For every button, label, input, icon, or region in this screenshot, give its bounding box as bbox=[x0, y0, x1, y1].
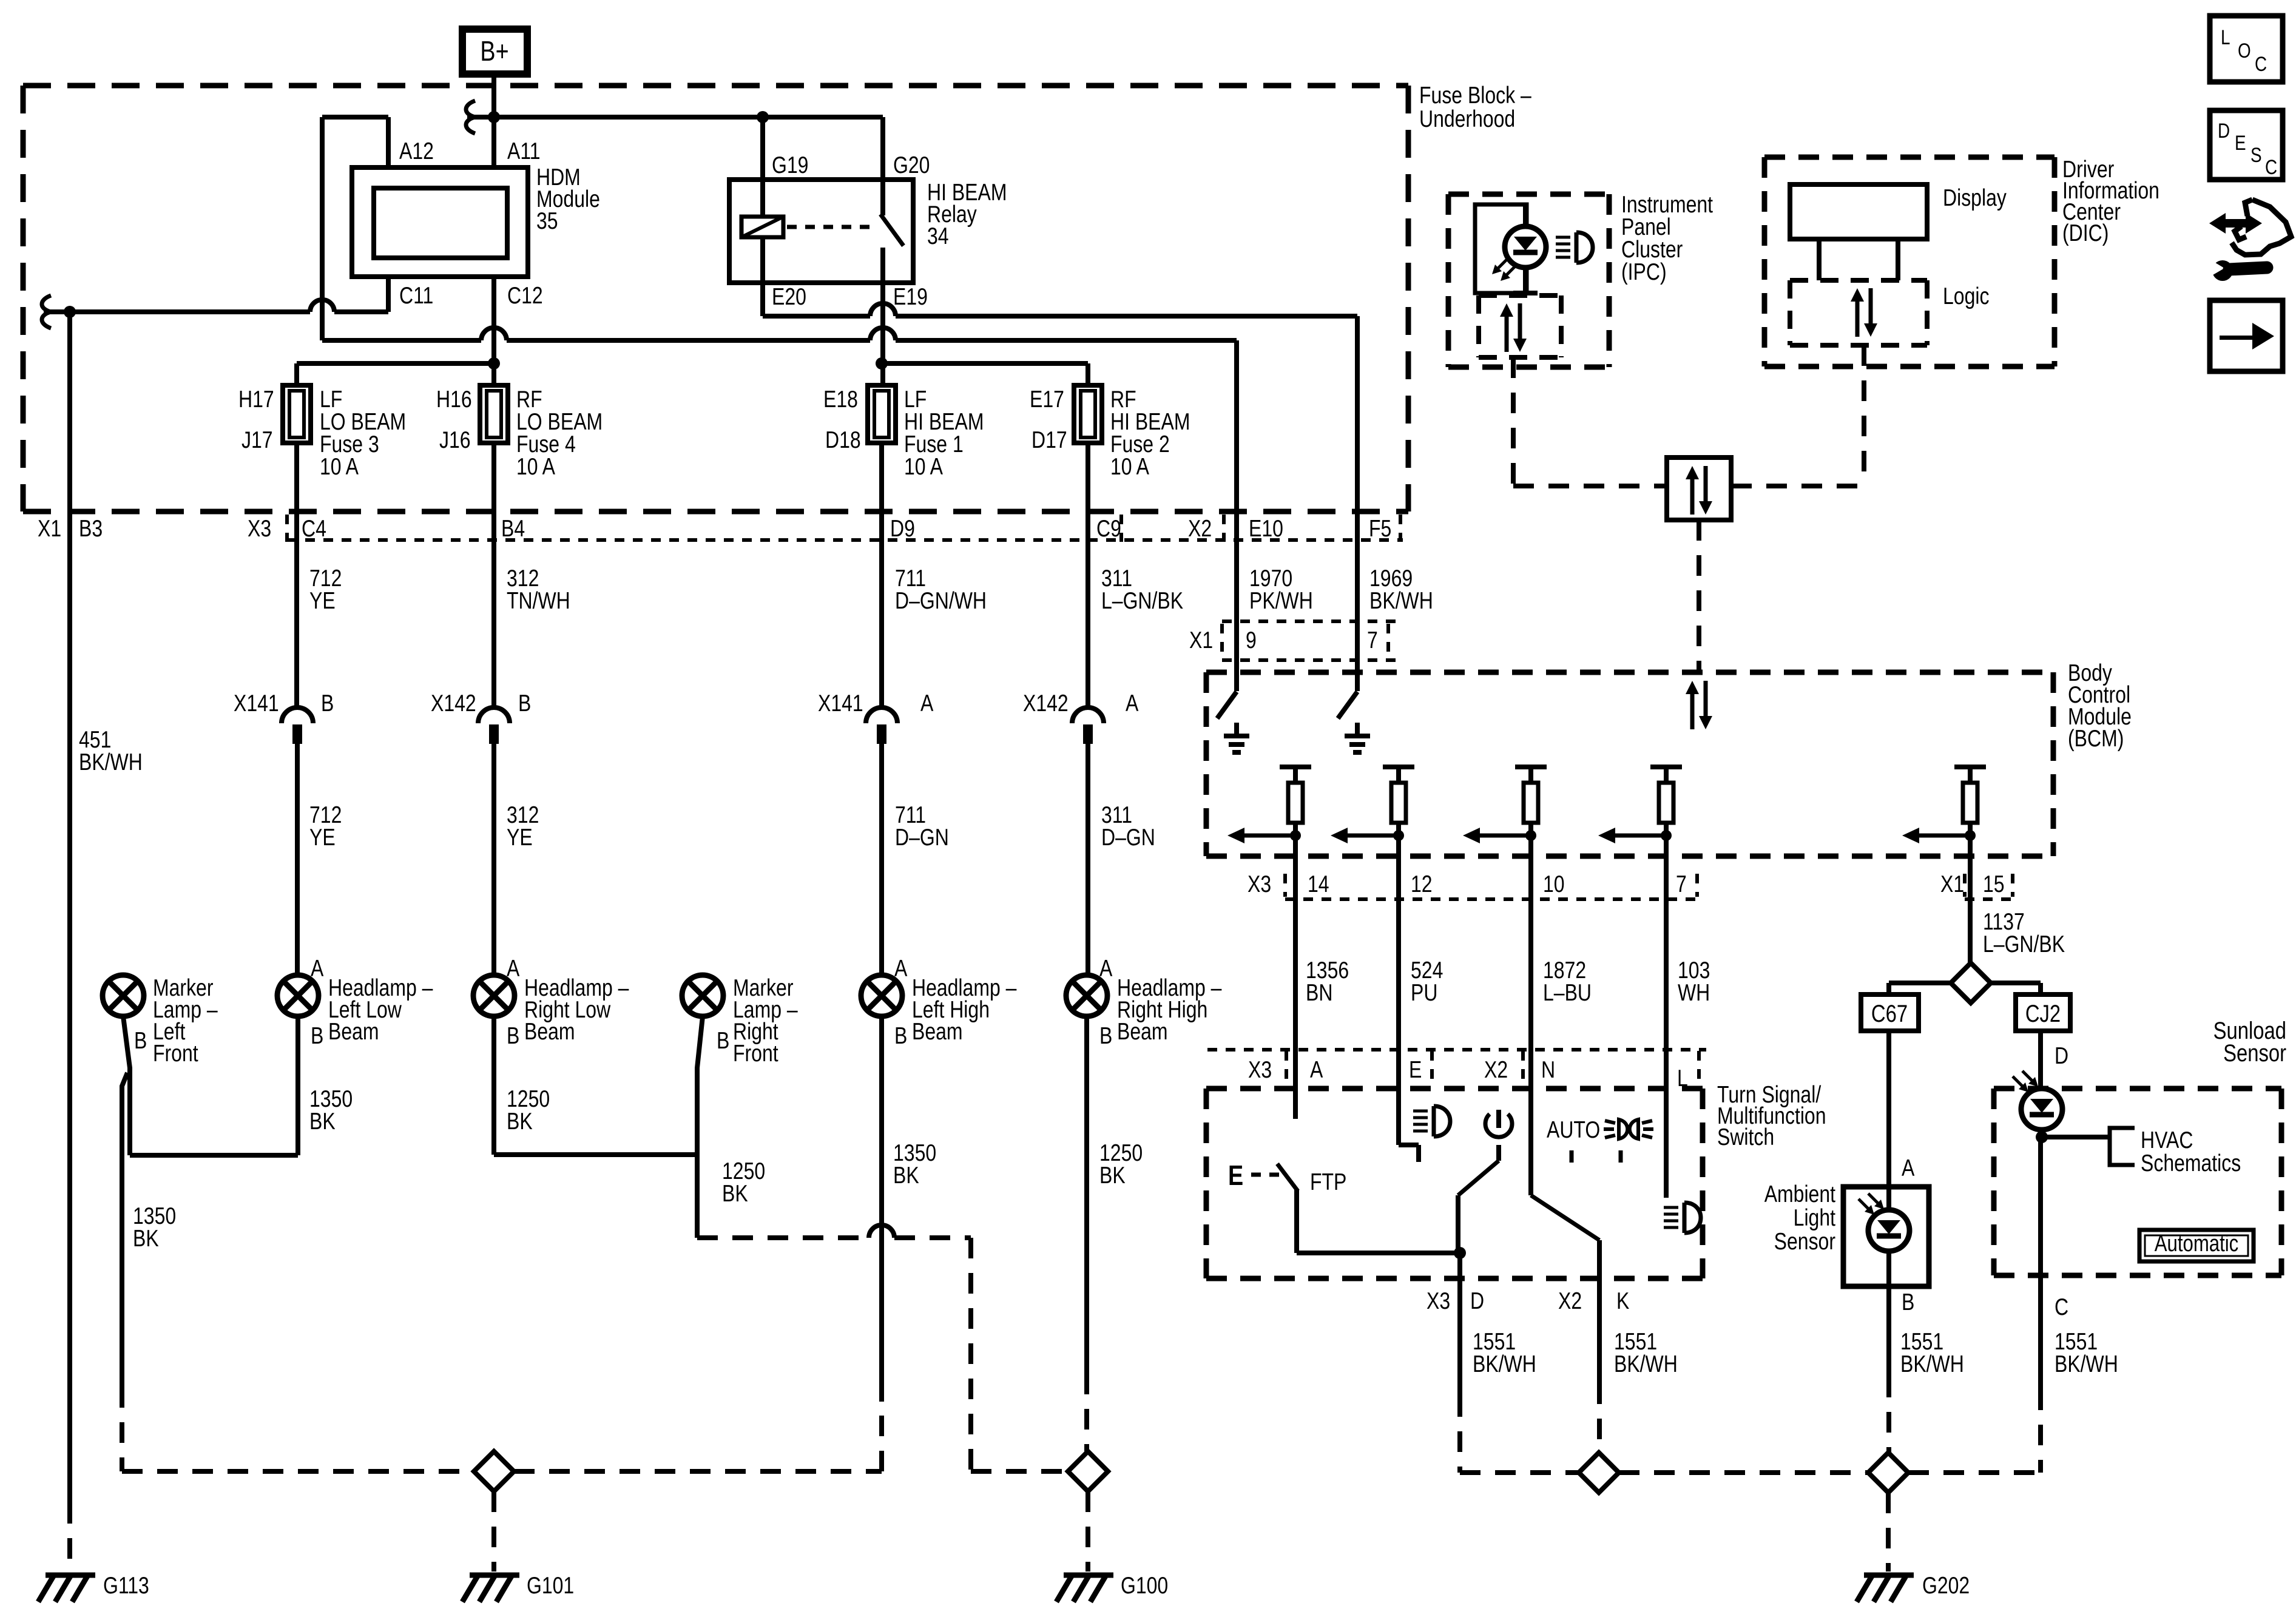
wire C11 output to left riser (451 circuit) bbox=[334, 309, 388, 314]
svg-text:FTP: FTP bbox=[1310, 1169, 1346, 1195]
svg-text:BK: BK bbox=[722, 1180, 748, 1207]
pin A11 bbox=[491, 117, 496, 167]
serial data dashed line to BCM bbox=[1697, 520, 1701, 672]
connector X141 B bbox=[282, 707, 313, 723]
switch pole A contact bbox=[1293, 1116, 1298, 1121]
node junction C12 / lo-beam fuse bus bbox=[488, 357, 500, 370]
pin C11 bbox=[386, 277, 391, 312]
svg-text:14: 14 bbox=[1308, 871, 1329, 897]
svg-text:A: A bbox=[1099, 955, 1113, 982]
svg-text:A: A bbox=[894, 955, 908, 982]
BCM driver output 10 bbox=[1515, 765, 1547, 769]
headlamp - left high beam bbox=[861, 975, 902, 1016]
svg-text:C4: C4 bbox=[302, 515, 326, 542]
ground G101 bbox=[470, 1573, 519, 1578]
wire splice to C67 bbox=[1889, 981, 1951, 985]
svg-text:B: B bbox=[321, 690, 334, 717]
ground G100 bbox=[1064, 1573, 1113, 1578]
IPC indicator frame bbox=[1475, 204, 1527, 293]
svg-text:A: A bbox=[1310, 1056, 1323, 1083]
svg-text:X1: X1 bbox=[1940, 871, 1964, 897]
svg-text:B: B bbox=[507, 1022, 519, 1049]
DESC reference box bbox=[2210, 110, 2283, 180]
wire fuse2 output bbox=[1086, 443, 1090, 710]
wire 1551 BK/WH from D bbox=[1457, 1253, 1462, 1396]
ground bus dashed G101 to left-high wire bbox=[514, 1469, 882, 1474]
svg-text:E18: E18 bbox=[823, 386, 858, 413]
node junction E19 / fuse bus bbox=[876, 357, 888, 370]
wire low beam right B + tie bar bbox=[491, 1016, 496, 1155]
svg-text:10: 10 bbox=[1543, 871, 1565, 897]
headlamp - left low beam bbox=[277, 975, 319, 1016]
power off icon bbox=[1496, 1110, 1501, 1128]
svg-text:L: L bbox=[1677, 1065, 1688, 1092]
LOC reference box bbox=[2210, 16, 2283, 82]
BCM X3 output connector row bbox=[1285, 897, 1699, 901]
svg-text:K: K bbox=[1616, 1288, 1630, 1314]
svg-text:X3: X3 bbox=[1248, 871, 1271, 897]
instrument panel cluster dashed box bbox=[1448, 192, 1609, 197]
svg-text:YE: YE bbox=[507, 824, 533, 851]
svg-text:A: A bbox=[507, 955, 520, 982]
wire 524 PU bbox=[1396, 895, 1401, 1145]
node junction switch output D bbox=[1454, 1247, 1466, 1259]
connector X142 A bbox=[1072, 707, 1104, 723]
node junction G19 bbox=[757, 111, 769, 123]
svg-text:L–GN/BK: L–GN/BK bbox=[1983, 931, 2065, 957]
splice diamond G101 bbox=[474, 1451, 514, 1491]
HDM module 35 body bbox=[352, 167, 528, 277]
svg-text:B: B bbox=[134, 1027, 147, 1054]
svg-text:BK: BK bbox=[507, 1108, 533, 1135]
wire low beam left B + tie bar bbox=[295, 1016, 300, 1155]
svg-text:Underhood: Underhood bbox=[1419, 106, 1515, 132]
HDM module internal link A12-C11 (loop) bbox=[322, 115, 388, 120]
tick X2 bbox=[1222, 515, 1226, 542]
svg-text:Light: Light bbox=[1794, 1204, 1835, 1231]
serial data dashed line splice to DIC bbox=[1731, 484, 1864, 488]
svg-text:A: A bbox=[920, 690, 934, 717]
BCM internal switch 7 bbox=[1338, 692, 1357, 718]
IPC serial data pin dashed bbox=[1511, 357, 1516, 486]
wire ALS B output bbox=[1886, 1286, 1891, 1377]
svg-text:Front: Front bbox=[733, 1040, 778, 1067]
svg-text:X3: X3 bbox=[1427, 1288, 1450, 1314]
svg-text:C: C bbox=[2265, 155, 2277, 178]
driver information center dashed box bbox=[1764, 155, 2055, 160]
svg-text:X1: X1 bbox=[38, 515, 61, 542]
svg-text:(DIC): (DIC) bbox=[2062, 220, 2109, 246]
svg-text:D–GN: D–GN bbox=[1101, 824, 1155, 851]
wire to HVAC schematics bbox=[2042, 1135, 2110, 1139]
svg-text:BK/WH: BK/WH bbox=[1473, 1351, 1536, 1377]
headlamp icon (L position) bbox=[1664, 1206, 1678, 1209]
svg-text:34: 34 bbox=[927, 223, 949, 249]
svg-text:C: C bbox=[2055, 1294, 2068, 1320]
svg-text:10 A: 10 A bbox=[1110, 453, 1149, 480]
svg-text:X2: X2 bbox=[1484, 1056, 1508, 1083]
pin C12 bbox=[491, 277, 496, 385]
wire 451 riser dashed to ground bbox=[67, 1503, 72, 1571]
svg-text:X2: X2 bbox=[1188, 515, 1212, 542]
serial data dashed line IPC to splice box bbox=[1513, 484, 1667, 488]
svg-text:(BCM): (BCM) bbox=[2068, 725, 2124, 752]
turn signal / multifunction switch dashed box bbox=[1206, 1086, 1703, 1092]
svg-text:9: 9 bbox=[1246, 627, 1257, 653]
svg-text:J17: J17 bbox=[241, 427, 273, 453]
break symbol left end of C11 wire bbox=[42, 295, 51, 328]
marker lamp - left front bbox=[103, 975, 144, 1016]
relay coil bbox=[760, 117, 765, 217]
DIC logic arrows bbox=[1855, 298, 1860, 337]
svg-text:BK: BK bbox=[1099, 1162, 1126, 1189]
headlamp - right low beam bbox=[473, 975, 515, 1016]
svg-text:12: 12 bbox=[1411, 871, 1433, 897]
svg-text:7: 7 bbox=[1367, 627, 1378, 653]
HVAC schematics bracket bbox=[2110, 1128, 2135, 1165]
HI BEAM relay 34 box bbox=[729, 180, 913, 283]
svg-text:BK/WH: BK/WH bbox=[1900, 1351, 1964, 1377]
svg-text:L: L bbox=[2221, 25, 2230, 49]
svg-text:Display: Display bbox=[1943, 184, 2007, 211]
svg-text:D: D bbox=[2055, 1042, 2068, 1069]
svg-text:B: B bbox=[1099, 1022, 1112, 1049]
svg-text:G100: G100 bbox=[1121, 1572, 1168, 1599]
svg-text:D–GN: D–GN bbox=[895, 824, 949, 851]
wire splice to CJ2 bbox=[1991, 981, 2041, 985]
marker lamp - right front bbox=[682, 975, 723, 1016]
svg-text:X3: X3 bbox=[1248, 1056, 1272, 1083]
svg-text:B: B bbox=[1902, 1289, 1914, 1315]
DIC display box bbox=[1790, 184, 1927, 239]
svg-text:B: B bbox=[518, 690, 531, 717]
svg-text:BN: BN bbox=[1306, 979, 1332, 1006]
svg-text:PU: PU bbox=[1411, 979, 1437, 1006]
svg-text:F5: F5 bbox=[1369, 515, 1391, 542]
svg-text:BK/WH: BK/WH bbox=[79, 749, 143, 775]
ground G202 bbox=[1864, 1573, 1914, 1578]
earth ground internal 9 bbox=[1234, 723, 1239, 736]
wire right high beam B bbox=[1084, 1016, 1089, 1374]
svg-text:BK: BK bbox=[133, 1225, 159, 1252]
svg-text:BK/WH: BK/WH bbox=[1369, 587, 1433, 614]
BCM driver output 14 (resistor+arrow) bbox=[1280, 765, 1311, 769]
wire marker right B bbox=[697, 1016, 703, 1238]
IPC serial data sub-box dashed bbox=[1479, 293, 1561, 298]
wire fuse3 output bbox=[294, 443, 299, 710]
svg-text:E: E bbox=[2235, 131, 2246, 154]
headlamp icon (on position) bbox=[1413, 1110, 1428, 1113]
IPC indicator lamp (photo symbol) bbox=[1523, 204, 1528, 293]
svg-text:(IPC): (IPC) bbox=[1621, 258, 1667, 285]
wire sunload C output bbox=[2038, 1275, 2043, 1389]
BCM X1-15 connector row bbox=[1965, 897, 2014, 901]
fuse block - underhood dashed enclosure bbox=[23, 83, 1408, 89]
svg-text:C: C bbox=[2255, 52, 2267, 75]
wire E20 to F5 (hops E19) bbox=[760, 283, 765, 316]
svg-text:C9: C9 bbox=[1096, 515, 1121, 542]
svg-text:L–BU: L–BU bbox=[1543, 979, 1592, 1006]
svg-text:D: D bbox=[2218, 119, 2230, 142]
BCM driver output 7 bbox=[1650, 765, 1682, 769]
sunload sensor dashed box bbox=[1994, 1086, 2281, 1092]
BCM internal switch 9 bbox=[1217, 692, 1237, 718]
svg-text:A: A bbox=[1902, 1155, 1915, 1181]
node junction 451 riser bbox=[64, 306, 76, 318]
splice diamond G100 bbox=[1068, 1451, 1108, 1491]
svg-text:Schematics: Schematics bbox=[2141, 1150, 2241, 1176]
svg-text:A: A bbox=[1126, 690, 1139, 717]
svg-text:E19: E19 bbox=[893, 283, 928, 310]
svg-text:N: N bbox=[1541, 1056, 1555, 1083]
wire 1350 BK ground feed left bbox=[122, 1073, 127, 1387]
sunload sensor photodiode bbox=[2021, 1089, 2062, 1130]
switch blade N bbox=[1531, 1195, 1599, 1240]
ground bus dashed to G202 splice bbox=[1619, 1470, 1868, 1475]
svg-text:G20: G20 bbox=[893, 152, 930, 178]
svg-text:Sensor: Sensor bbox=[1774, 1228, 1835, 1255]
wire 1356 BN bbox=[1293, 895, 1298, 1119]
svg-text:D9: D9 bbox=[890, 515, 915, 542]
wire fuse4 output bbox=[491, 443, 496, 710]
svg-text:H17: H17 bbox=[238, 386, 274, 413]
svg-text:PK/WH: PK/WH bbox=[1249, 587, 1313, 614]
svg-text:E: E bbox=[1409, 1056, 1422, 1083]
svg-text:X142: X142 bbox=[1023, 690, 1069, 717]
svg-text:Switch: Switch bbox=[1717, 1124, 1774, 1150]
splice diamond 1137 bbox=[1951, 963, 1991, 1003]
svg-text:D18: D18 bbox=[825, 427, 861, 453]
svg-text:10 A: 10 A bbox=[516, 453, 555, 480]
wire 103 WH bbox=[1664, 895, 1669, 1198]
pin A12 bbox=[386, 117, 391, 167]
svg-text:Sensor: Sensor bbox=[2223, 1039, 2286, 1067]
DIC serial pin dashed bbox=[1862, 345, 1866, 486]
svg-text:WH: WH bbox=[1678, 979, 1710, 1006]
svg-text:B: B bbox=[894, 1022, 907, 1049]
svg-text:E10: E10 bbox=[1249, 515, 1283, 542]
svg-text:J16: J16 bbox=[439, 427, 471, 453]
fuse LF HI BEAM Fuse 1 10A (E18/D18) bbox=[868, 385, 896, 443]
svg-text:Beam: Beam bbox=[1117, 1018, 1168, 1045]
forward arrow reference box bbox=[2210, 300, 2283, 371]
connector X141 A bbox=[866, 707, 897, 723]
power position contact bbox=[1496, 1145, 1501, 1161]
svg-text:E: E bbox=[1228, 1160, 1243, 1190]
body control module dashed box bbox=[1206, 670, 2053, 675]
wire 1872 L-BU bbox=[1528, 895, 1533, 1195]
node junction B+ / A11 bbox=[488, 111, 500, 123]
svg-text:Front: Front bbox=[153, 1040, 198, 1067]
ground stub G101 bbox=[491, 1491, 496, 1571]
headlamp - right high beam bbox=[1066, 975, 1107, 1016]
svg-text:BK/WH: BK/WH bbox=[2055, 1351, 2118, 1377]
AUTO position ticks bbox=[1570, 1150, 1574, 1163]
wire left high beam B bbox=[879, 1016, 884, 1402]
svg-text:G101: G101 bbox=[527, 1572, 574, 1599]
svg-text:YE: YE bbox=[309, 587, 336, 614]
wire marker left B bbox=[123, 1016, 130, 1155]
fuse LF LO BEAM Fuse 3 10A (H17/J17) bbox=[283, 385, 311, 443]
headlamps-on contact E bbox=[1399, 1143, 1419, 1147]
switch input connector row bbox=[1207, 1048, 1706, 1052]
svg-text:BK: BK bbox=[309, 1108, 336, 1135]
FTP switch blade bbox=[1277, 1164, 1298, 1191]
automatic box bbox=[2139, 1230, 2254, 1261]
wire 451 BK/WH left riser bbox=[67, 312, 72, 1503]
svg-text:35: 35 bbox=[536, 208, 558, 234]
B+ battery feed box bbox=[462, 29, 527, 74]
svg-text:A: A bbox=[311, 955, 324, 982]
hand with wrench icon bbox=[2232, 200, 2291, 255]
wire C67 to ambient light sensor A bbox=[1886, 1031, 1891, 1187]
svg-text:D–GN/WH: D–GN/WH bbox=[895, 587, 987, 614]
svg-text:B: B bbox=[311, 1022, 323, 1049]
svg-text:15: 15 bbox=[1983, 871, 2005, 897]
svg-text:S: S bbox=[2250, 143, 2262, 166]
wire CJ2 to sunload sensor D bbox=[2038, 1031, 2043, 1137]
ground link dashed right group (hops left-high wire) bbox=[697, 1235, 869, 1240]
svg-text:Fuse Block –: Fuse Block – bbox=[1419, 82, 1531, 109]
wire hi-beam fuse bus bbox=[882, 361, 1088, 366]
ground G113 bbox=[46, 1573, 95, 1578]
BCM X1 connector row bbox=[1222, 619, 1396, 623]
wire 1137 L-GN/BK bbox=[1968, 895, 1973, 964]
wire FTP common bbox=[1294, 1190, 1299, 1253]
svg-text:E17: E17 bbox=[1030, 386, 1064, 413]
earth ground internal 7 bbox=[1355, 723, 1360, 736]
svg-text:X141: X141 bbox=[818, 690, 863, 717]
svg-text:Ambient: Ambient bbox=[1764, 1181, 1835, 1207]
wire fuse1 output bbox=[879, 443, 884, 710]
DIC display legs bbox=[1817, 239, 1822, 280]
serial data splice arrows bbox=[1690, 476, 1695, 515]
DIC logic dashed box bbox=[1790, 278, 1927, 283]
break symbol left end of B+ bus bbox=[466, 101, 475, 133]
svg-text:X141: X141 bbox=[234, 690, 279, 717]
svg-text:10 A: 10 A bbox=[320, 453, 359, 480]
svg-text:D17: D17 bbox=[1032, 427, 1067, 453]
svg-text:Beam: Beam bbox=[328, 1018, 379, 1045]
svg-text:G19: G19 bbox=[772, 152, 808, 178]
svg-text:B3: B3 bbox=[79, 515, 103, 542]
svg-text:X2: X2 bbox=[1558, 1288, 1582, 1314]
IPC serial data arrows bbox=[1505, 313, 1509, 352]
svg-text:Beam: Beam bbox=[912, 1018, 963, 1045]
svg-text:X1: X1 bbox=[1189, 627, 1213, 653]
svg-text:Beam: Beam bbox=[524, 1018, 575, 1045]
svg-text:B: B bbox=[717, 1027, 729, 1054]
ground stub G100 bbox=[1086, 1491, 1090, 1571]
svg-text:A12: A12 bbox=[399, 138, 434, 164]
svg-text:O: O bbox=[2238, 39, 2251, 62]
svg-text:7: 7 bbox=[1676, 871, 1687, 897]
wire E19 down to hi-beam fuse bus bbox=[880, 283, 885, 385]
ground stub G202 bbox=[1886, 1493, 1891, 1571]
wire B+ down to bus bbox=[491, 75, 496, 117]
tick X3 bbox=[285, 515, 289, 542]
svg-text:H16: H16 bbox=[436, 386, 472, 413]
fuse RF LO BEAM Fuse 4 10A (H16/J16) bbox=[480, 385, 508, 443]
wire 1551 BK/WH from K dashed bbox=[1597, 1383, 1602, 1453]
connector box CJ2 bbox=[2016, 994, 2070, 1031]
svg-text:C67: C67 bbox=[1871, 1000, 1908, 1027]
node junction sunload / HVAC bbox=[2038, 1129, 2043, 1275]
BCM driver output X1-15 bbox=[1954, 765, 1986, 769]
svg-text:B+: B+ bbox=[480, 35, 508, 66]
serial data splice box bbox=[1667, 457, 1731, 520]
svg-text:BK: BK bbox=[893, 1162, 919, 1189]
svg-text:CJ2: CJ2 bbox=[2025, 1000, 2061, 1027]
ground bus dashed sunload C bbox=[1908, 1470, 2041, 1475]
svg-text:Logic: Logic bbox=[1943, 283, 1989, 309]
ambient light sensor box bbox=[1843, 1187, 1929, 1286]
svg-text:L–GN/BK: L–GN/BK bbox=[1101, 587, 1183, 614]
tick after F5 bbox=[1399, 515, 1402, 542]
FTP dashed link bbox=[1251, 1173, 1279, 1177]
svg-text:BK/WH: BK/WH bbox=[1614, 1351, 1678, 1377]
BCM serial arrows bbox=[1690, 690, 1695, 729]
svg-text:C12: C12 bbox=[507, 282, 543, 309]
svg-text:AUTO: AUTO bbox=[1547, 1116, 1600, 1143]
connector row X1/X3/X2 fine dashed line bbox=[287, 538, 1403, 542]
svg-text:A11: A11 bbox=[507, 138, 541, 164]
svg-text:G113: G113 bbox=[103, 1572, 149, 1599]
fuse RF HI BEAM Fuse 2 10A (E17/D17) bbox=[1074, 385, 1102, 443]
splice diamond (K) bbox=[1579, 1453, 1619, 1493]
svg-text:D: D bbox=[1470, 1288, 1484, 1314]
connector box C67 bbox=[1861, 994, 1919, 1031]
svg-text:Automatic: Automatic bbox=[2155, 1231, 2239, 1257]
IPC headlamp icon bbox=[1556, 236, 1570, 239]
relay link dashed bbox=[787, 225, 876, 229]
svg-text:G202: G202 bbox=[1922, 1572, 1970, 1599]
splice diamond G202 bbox=[1868, 1453, 1908, 1493]
svg-text:B4: B4 bbox=[501, 515, 525, 542]
wire B+ bus bbox=[467, 115, 883, 120]
svg-text:10 A: 10 A bbox=[904, 453, 943, 480]
connector X142 B bbox=[478, 707, 510, 723]
relay switch blade G20-E19 bbox=[880, 117, 885, 215]
svg-text:TN/WH: TN/WH bbox=[507, 587, 570, 614]
tick after C9 bbox=[1119, 515, 1123, 542]
BCM driver output 12 bbox=[1383, 765, 1414, 769]
ambient light sensor photodiode bbox=[1886, 1187, 1891, 1286]
svg-text:C11: C11 bbox=[399, 282, 433, 309]
wire lo-beam fuse bus bbox=[297, 361, 494, 366]
svg-text:X142: X142 bbox=[431, 690, 476, 717]
svg-text:E20: E20 bbox=[772, 283, 806, 310]
ground bus dashed to G101 bbox=[122, 1469, 474, 1474]
wire HDM internal-link line to E10 (hops C12 and E19) bbox=[322, 338, 481, 343]
svg-text:YE: YE bbox=[309, 824, 336, 851]
wire N-K output bbox=[1597, 1240, 1602, 1383]
ground bus dashed D to splice bbox=[1460, 1470, 1579, 1475]
svg-text:X3: X3 bbox=[248, 515, 271, 542]
